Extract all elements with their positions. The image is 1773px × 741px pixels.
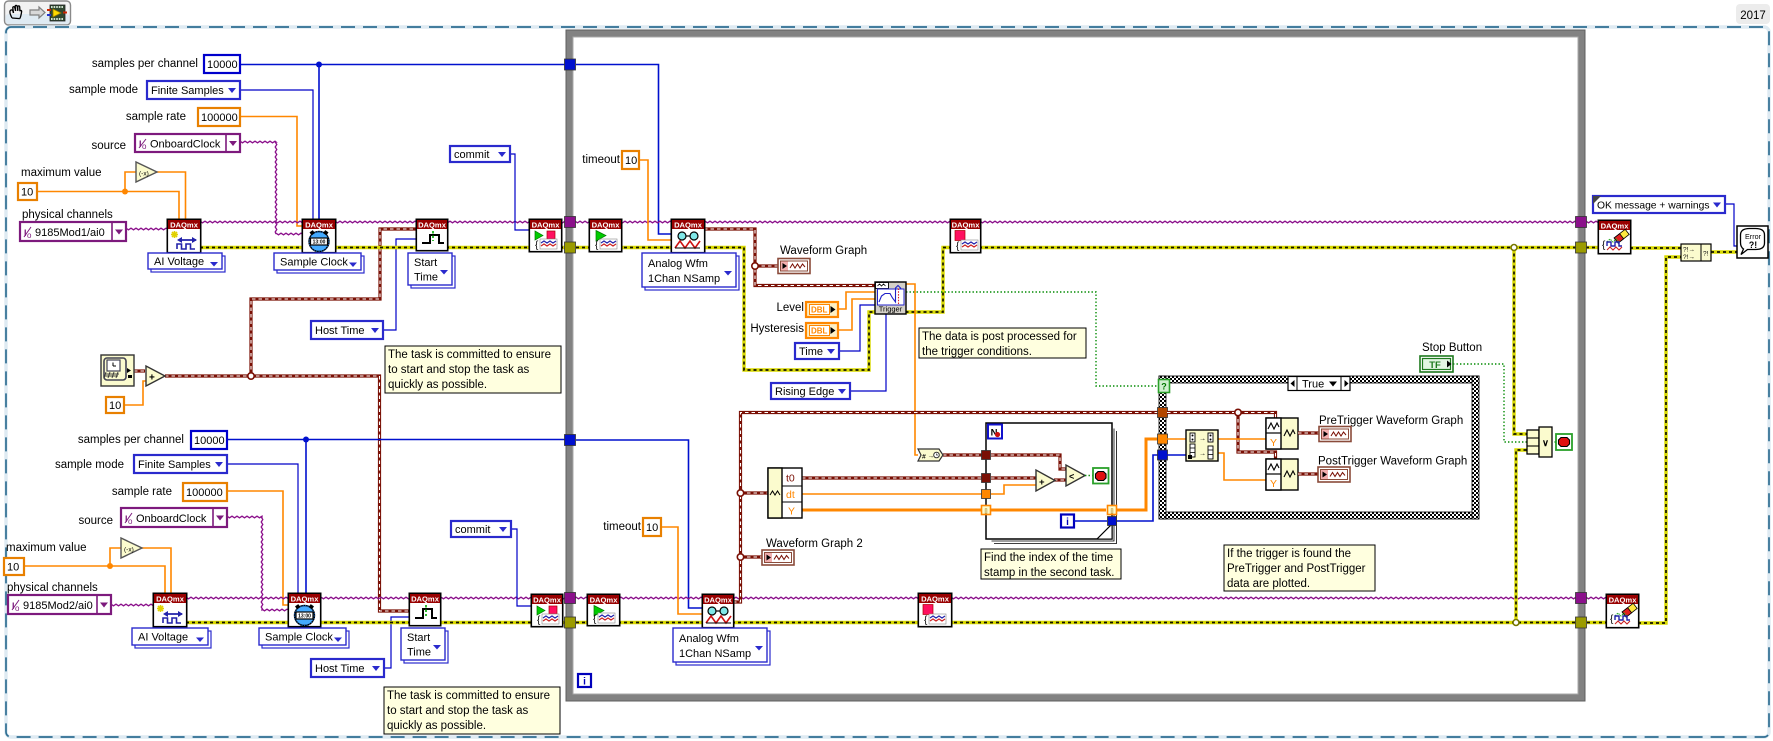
wire: maximum value (bottom)	[24, 566, 165, 594]
wire: timestamp from add to start-time nodes (brown)	[134, 369, 145, 372]
svg-text:9185Mod1/ai0: 9185Mod1/ai0	[35, 227, 105, 239]
svg-text:The task is committed to ensur: The task is committed to ensure	[387, 690, 550, 702]
comment: task committed (top)	[385, 346, 561, 393]
case input tunnels	[1158, 408, 1168, 418]
comment: task committed (bottom)	[384, 687, 560, 734]
svg-text:True: True	[1302, 379, 1324, 391]
wire: error cluster (bottom row)	[186, 621, 566, 624]
svg-text:?!: ?!	[1703, 251, 1709, 258]
control: timeout 10 (bottom)	[643, 518, 661, 536]
control: 10 maximum (top)	[18, 183, 37, 200]
svg-text:Y: Y	[1270, 478, 1277, 490]
control: Rising Edge enum	[771, 383, 850, 399]
svg-text:+: +	[149, 373, 155, 384]
wire: OK message enum	[1725, 204, 1737, 246]
wire: source terminal (top, purple)	[240, 141, 304, 235]
svg-text:DAQmx: DAQmx	[418, 221, 447, 230]
svg-text:samples per channel: samples per channel	[78, 434, 184, 446]
svg-text:DAQmx: DAQmx	[156, 595, 185, 604]
svg-text:Level: Level	[777, 302, 805, 314]
svg-text:13:00: 13:00	[298, 614, 311, 620]
To Index converter node	[918, 449, 943, 461]
control: OnboardClock (bottom)	[121, 508, 227, 527]
add node (index)	[1036, 470, 1055, 491]
svg-text:Waveform Graph: Waveform Graph	[780, 245, 867, 257]
control: OnboardClock (top)	[135, 134, 240, 152]
svg-text:Finite Samples: Finite Samples	[138, 459, 211, 471]
DAQmx Stop Task (top)	[950, 219, 980, 252]
Build Waveform node (PostTrigger)	[1266, 459, 1298, 490]
control: 10000 (top)	[204, 55, 240, 73]
svg-text:1Chan NSamp: 1Chan NSamp	[648, 273, 720, 285]
Merge Errors node	[1681, 244, 1711, 261]
DAQmx Control Task (top)	[529, 219, 561, 251]
DAQmx Clear Task (bottom)	[1606, 594, 1638, 627]
label: Start Time (top)	[411, 256, 455, 288]
svg-text:DAQmx: DAQmx	[532, 221, 561, 230]
svg-text:10000: 10000	[207, 59, 238, 71]
loop iteration terminal i	[578, 674, 591, 687]
label: Start Time (bottom)	[404, 631, 448, 663]
wire: N-loop Y array out to case (orange)	[1116, 439, 1159, 510]
svg-text:data are plotted.: data are plotted.	[1227, 578, 1310, 590]
less-than node	[1066, 465, 1085, 486]
wire: waveform data bottom read (brown)	[733, 413, 1159, 603]
DAQmx Create Virtual Channel (top)	[167, 219, 200, 252]
svg-text:Stop Button: Stop Button	[1422, 342, 1482, 354]
timestamp source: Get Date/Time node	[101, 355, 134, 386]
svg-text:timeout: timeout	[603, 521, 642, 533]
svg-text:∨: ∨	[1542, 438, 1549, 449]
control: Finite Samples (top)	[147, 81, 240, 99]
tunnel: samples per channel bottom-left	[565, 435, 576, 446]
svg-text:stamp in the second task.: stamp in the second task.	[984, 567, 1114, 579]
svg-text:t0: t0	[786, 473, 795, 485]
case selector ? terminal	[1159, 380, 1170, 393]
control: 9185Mod2/ai0 (bottom)	[8, 595, 111, 614]
while loop frame	[570, 34, 1582, 698]
DAQmx Timing (top)	[302, 219, 335, 252]
svg-text:PostTrigger Waveform Graph: PostTrigger Waveform Graph	[1318, 456, 1467, 468]
Get Waveform Components node	[768, 468, 802, 518]
svg-text:Analog Wfm: Analog Wfm	[648, 258, 708, 270]
wire: Level DBL (orange)	[838, 292, 875, 309]
svg-text:DAQmx: DAQmx	[590, 596, 619, 605]
svg-text:Find the index of the time: Find the index of the time	[984, 552, 1113, 564]
comment: trigger found	[1224, 545, 1375, 591]
svg-text:commit: commit	[455, 524, 490, 536]
DAQmx Stop Task (bottom)	[918, 593, 951, 626]
svg-text:DBL: DBL	[811, 306, 828, 315]
case selector: True	[1288, 377, 1350, 391]
svg-text:commit: commit	[454, 149, 489, 161]
terminal: Stop Button TF	[1420, 356, 1453, 372]
svg-text:sample mode: sample mode	[55, 459, 124, 471]
svg-text:10: 10	[21, 187, 33, 199]
control: commit (bottom)	[451, 521, 511, 537]
control: timeout 10 (top)	[622, 151, 639, 169]
svg-text:PreTrigger and PostTrigger: PreTrigger and PostTrigger	[1227, 563, 1366, 575]
svg-text:DAQmx: DAQmx	[952, 221, 981, 230]
svg-text:10000: 10000	[194, 435, 225, 447]
toolbar arrow icon	[30, 7, 45, 18]
svg-text:Y: Y	[788, 506, 795, 518]
svg-text:Finite Samples: Finite Samples	[151, 85, 224, 97]
svg-text:Time: Time	[799, 346, 823, 358]
svg-text:10: 10	[109, 400, 121, 412]
wire: timeout (top, orange)	[639, 160, 672, 240]
svg-text:The data is post processed for: The data is post processed for	[922, 331, 1077, 343]
terminal: PreTrigger Waveform Graph	[1319, 427, 1351, 442]
Simple Error Handler	[1737, 226, 1768, 258]
svg-text:DAQmx: DAQmx	[305, 221, 334, 230]
svg-text:13:00: 13:00	[313, 240, 326, 246]
wire: sample rate (bottom)	[227, 491, 289, 605]
svg-text:samples per channel: samples per channel	[92, 58, 198, 70]
DAQmx Start Trigger Time (top)	[416, 219, 447, 250]
wire: physical channels (bottom purple)	[111, 604, 154, 606]
svg-text:Y: Y	[1270, 437, 1277, 449]
svg-text:OnboardClock: OnboardClock	[136, 513, 207, 525]
wire: Host Time enum (bottom)	[384, 617, 410, 668]
svg-text:timeout: timeout	[582, 154, 621, 166]
svg-text:DAQmx: DAQmx	[592, 221, 621, 230]
svg-text:quickly as possible.: quickly as possible.	[387, 720, 486, 732]
svg-text:10: 10	[7, 562, 19, 574]
Split 1D Array node	[1186, 430, 1218, 461]
label: Sample Clock (bottom)	[262, 631, 349, 648]
wires inside case	[1167, 411, 1238, 414]
svg-text:Time: Time	[407, 646, 431, 658]
wire: unbundle Y out (orange array)	[802, 509, 986, 512]
tunnel: samples per channel top	[565, 59, 576, 70]
svg-text:AI Voltage: AI Voltage	[138, 632, 188, 644]
conditional stop terminal (N loop)	[1093, 468, 1109, 484]
constant 10 (timestamp offset)	[106, 397, 124, 413]
wire: trigger found boolean (green dotted)	[906, 292, 1159, 386]
label: Analog Wfm 1Chan NSamp (bottom)	[676, 631, 770, 665]
N-loop input tunnels	[982, 451, 991, 460]
svg-text:maximum value: maximum value	[6, 542, 87, 554]
svg-text:Analog Wfm: Analog Wfm	[679, 633, 739, 645]
svg-text:sample rate: sample rate	[112, 486, 172, 498]
wire: maximum value (top, orange)	[37, 192, 179, 221]
svg-text:Time: Time	[414, 271, 438, 283]
DAQmx Start Trigger Time (bottom)	[409, 593, 440, 625]
svg-text:maximum value: maximum value	[21, 167, 102, 179]
svg-text:Host Time: Host Time	[315, 325, 365, 337]
svg-text:to start and stop the task as: to start and stop the task as	[388, 364, 530, 376]
DAQmx Clear Task (top)	[1598, 220, 1630, 253]
toolbar VI icon	[50, 5, 65, 21]
svg-text:i: i	[583, 677, 586, 688]
control: commit (top)	[450, 146, 510, 162]
wire: timeout (bottom)	[662, 527, 703, 614]
wire: physical channels (top, purple)	[126, 228, 168, 230]
compound OR node	[1527, 430, 1539, 454]
svg-text:1Chan NSamp: 1Chan NSamp	[679, 648, 751, 660]
svg-text:100000: 100000	[201, 112, 238, 124]
N-loop output tunnels	[1108, 506, 1117, 515]
wire: DAQmx task (top row, purple)	[200, 221, 1576, 223]
svg-text:source: source	[91, 140, 126, 152]
wire: error cluster (top row, yellow/black)	[200, 246, 566, 249]
while loop conditional terminal	[1556, 434, 1572, 450]
svg-text:10: 10	[625, 155, 637, 167]
svg-text:DAQmx: DAQmx	[291, 595, 320, 604]
svg-text:AI Voltage: AI Voltage	[154, 256, 204, 268]
wire: sample mode (top, enum)	[240, 90, 313, 220]
wire: DAQmx task (bottom row purple)	[186, 597, 1576, 599]
svg-text:100000: 100000	[186, 487, 223, 499]
wire: commit enum (bottom)	[511, 529, 532, 606]
svg-text:source: source	[78, 515, 113, 527]
DAQmx Read (bottom)	[702, 594, 733, 627]
DAQmx Create Virtual Channel (bottom)	[153, 593, 186, 626]
svg-text:DAQmx: DAQmx	[674, 221, 703, 230]
wire: sample rate (top, DBL orange)	[240, 117, 304, 227]
svg-text:[]: []	[1110, 509, 1114, 515]
svg-text:Start: Start	[414, 257, 437, 269]
svg-text:to start and stop the task as: to start and stop the task as	[387, 705, 529, 717]
svg-text:[]: []	[984, 509, 988, 515]
svg-text:Rising Edge: Rising Edge	[775, 386, 834, 398]
label: AI Voltage (top)	[151, 256, 225, 272]
control: 9185Mod1/ai0 (top)	[20, 222, 126, 241]
N iterations terminal	[988, 425, 1002, 439]
DAQmx Control Task (bottom)	[531, 594, 562, 626]
wire: sample mode (bottom)	[227, 464, 298, 594]
svg-text:DAQmx: DAQmx	[170, 221, 199, 230]
label: AI Voltage (bottom)	[135, 631, 211, 648]
svg-text:DAQmx: DAQmx	[704, 596, 733, 605]
svg-text:OnboardClock: OnboardClock	[150, 139, 221, 151]
label: Analog Wfm 1Chan NSamp (top)	[645, 256, 739, 290]
DAQmx Start Task (top)	[589, 219, 621, 251]
control: 100000 (top)	[198, 108, 240, 126]
wire: samples per channel (bottom)	[227, 439, 566, 441]
add node (top group timestamp)	[146, 366, 165, 386]
control: Time enum	[795, 343, 839, 359]
toolbar hand icon	[10, 5, 22, 18]
2017 version tag	[1736, 4, 1770, 24]
wire: waveform data top read -> graph & trigger (brown)	[704, 229, 875, 286]
svg-text:physical channels: physical channels	[22, 209, 113, 221]
svg-text:the trigger conditions.: the trigger conditions.	[922, 346, 1032, 358]
wire: samples per channel (top, I32 blue)	[240, 64, 566, 66]
svg-text:<: <	[1069, 472, 1074, 482]
svg-text:The task is committed to ensur: The task is committed to ensure	[388, 349, 551, 361]
svg-text:i: i	[1066, 517, 1069, 528]
svg-text:?!: ?!	[1749, 240, 1757, 250]
constant: Level DBL	[806, 302, 838, 317]
svg-text:quickly as possible.: quickly as possible.	[388, 379, 487, 391]
wire: Rising Edge enum	[850, 314, 886, 391]
svg-text:→: →	[1199, 451, 1206, 458]
svg-text:DBL: DBL	[811, 327, 828, 336]
terminal: Waveform Graph 2	[762, 550, 794, 565]
terminal: PostTrigger Waveform Graph	[1318, 467, 1350, 482]
Build Waveform node (PreTrigger)	[1266, 418, 1298, 449]
tunnel: task purple top-right	[1576, 217, 1587, 228]
find-index while loop frame	[994, 431, 1117, 544]
svg-text:sample mode: sample mode	[69, 84, 138, 96]
DAQmx Read (top)	[671, 219, 704, 252]
svg-text:?!→: ?!→	[1683, 247, 1695, 254]
comment: find index	[981, 549, 1121, 579]
tunnel: task purple top-left	[565, 217, 576, 228]
wire: commit enum (top)	[509, 154, 530, 230]
N-loop internal wires	[991, 455, 1066, 469]
svg-text:10: 10	[646, 522, 658, 534]
svg-text:Waveform Graph 2: Waveform Graph 2	[766, 538, 863, 550]
svg-text:TF: TF	[1429, 360, 1441, 371]
control: Finite Samples (bottom)	[134, 455, 227, 473]
svg-text:?: ?	[1161, 382, 1167, 392]
Waveform Trigger VI	[875, 282, 906, 314]
svg-text:physical channels: physical channels	[7, 582, 98, 594]
negate node (top)	[136, 162, 157, 182]
label: Sample Clock (top)	[277, 256, 364, 273]
wire: N-loop index out to case (blue)	[1116, 455, 1159, 521]
svg-text:+: +	[1039, 477, 1045, 488]
DAQmx Timing (bottom)	[288, 593, 320, 626]
svg-text:→: →	[928, 453, 935, 460]
svg-text:DAQmx: DAQmx	[411, 595, 440, 604]
svg-text:Sample Clock: Sample Clock	[265, 632, 333, 644]
wire: Host Time enum (top)	[383, 239, 417, 330]
tunnel: error olive top-right	[1576, 242, 1587, 253]
terminal: Waveform Graph	[778, 259, 810, 274]
constant: Hysteresis DBL	[806, 323, 838, 338]
wire: unbundle t0 out (brown)	[802, 476, 986, 479]
iteration terminal i (N loop)	[1061, 515, 1074, 528]
svg-text:Hysteresis: Hysteresis	[750, 323, 804, 335]
wire: converted index (brown)	[943, 453, 986, 456]
svg-text:Host Time: Host Time	[315, 663, 365, 675]
toolbar box	[5, 1, 71, 25]
control: OK message + warnings	[1593, 196, 1725, 213]
svg-text:PreTrigger Waveform Graph: PreTrigger Waveform Graph	[1319, 415, 1463, 427]
svg-text:Sample Clock: Sample Clock	[280, 257, 348, 269]
negate node (bottom)	[121, 538, 142, 558]
wire: OR output to loop condition (green dotted)	[1551, 441, 1556, 443]
svg-text:?!→: ?!→	[1683, 254, 1695, 261]
tunnel: error olive bottom-right	[1576, 617, 1587, 628]
wire: unbundle dt out (orange)	[802, 493, 986, 495]
wire: Hysteresis DBL (orange)	[838, 299, 875, 330]
svg-text:→: →	[1199, 436, 1206, 443]
svg-text:2017: 2017	[1740, 10, 1766, 22]
wire: trigger position (orange) to index converter	[906, 284, 918, 455]
comment: post processed	[919, 328, 1086, 358]
svg-text:If the trigger is found the: If the trigger is found the	[1227, 548, 1351, 560]
svg-text:OK message + warnings: OK message + warnings	[1597, 201, 1709, 212]
svg-text:dt: dt	[786, 489, 795, 501]
DAQmx Start Task (bottom)	[587, 594, 619, 625]
svg-text:DAQmx: DAQmx	[921, 595, 950, 604]
tunnel: error olive bottom-left	[565, 617, 576, 628]
control: 10000 (bottom)	[191, 431, 227, 449]
wire: Stop Button boolean (green dotted)	[1453, 364, 1527, 442]
tunnel: task purple bottom-left	[565, 593, 576, 604]
wire: Time enum	[839, 305, 875, 351]
wire: add constant 10 (orange)	[124, 381, 146, 405]
control: Host Time (top)	[311, 321, 383, 339]
svg-text:(-x): (-x)	[124, 547, 134, 554]
svg-text:9185Mod2/ai0: 9185Mod2/ai0	[23, 600, 93, 612]
svg-text:Start: Start	[407, 632, 430, 644]
svg-text:sample rate: sample rate	[126, 111, 186, 123]
tunnel: error olive top-left	[565, 242, 576, 253]
control: Host Time (bottom)	[311, 659, 384, 677]
wire: source (bottom purple)	[227, 516, 289, 611]
tunnel: task purple bottom-right	[1576, 593, 1587, 604]
svg-text:DAQmx: DAQmx	[533, 596, 562, 605]
svg-text:Trigger: Trigger	[879, 305, 903, 314]
control: 100000 (bottom)	[183, 483, 227, 501]
svg-text:#: #	[922, 454, 926, 461]
svg-text:(-x): (-x)	[139, 171, 149, 178]
control: 10 maximum (bottom)	[4, 558, 24, 575]
